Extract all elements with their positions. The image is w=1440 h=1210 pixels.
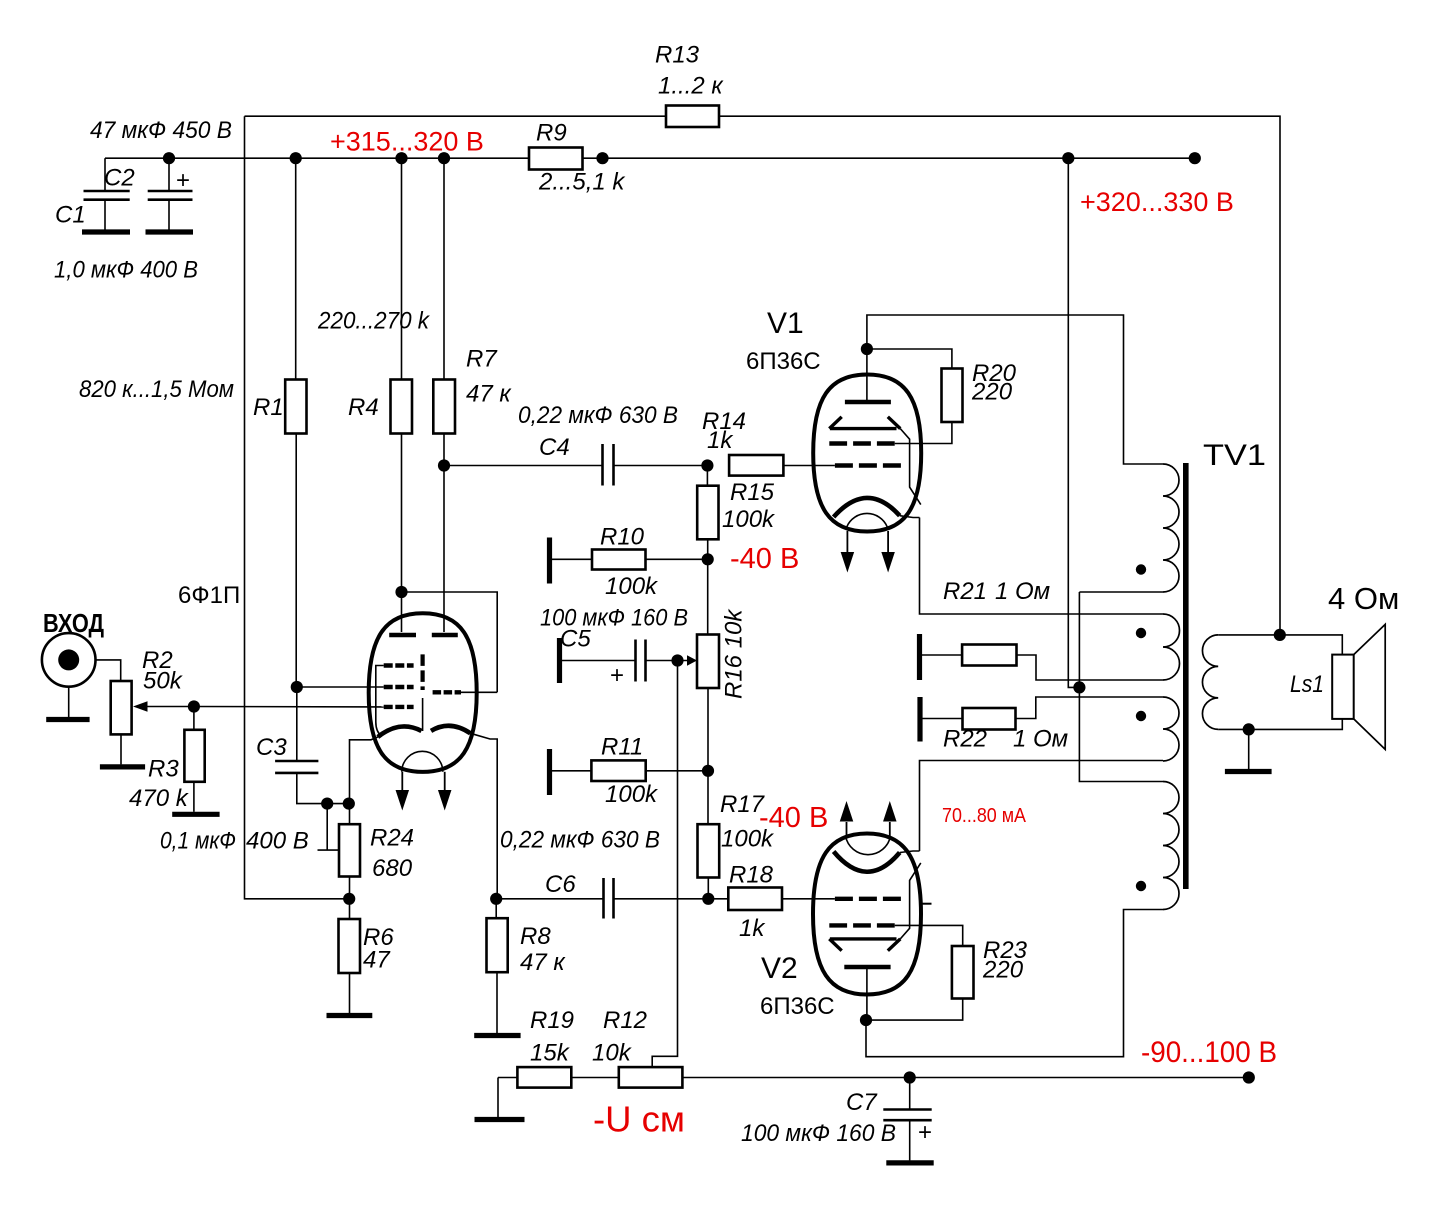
svg-text:-U см: -U см bbox=[593, 1099, 685, 1140]
svg-text:6Ф1П: 6Ф1П bbox=[178, 582, 240, 609]
svg-text:1k: 1k bbox=[707, 427, 734, 454]
svg-text:47 мкФ 450 В: 47 мкФ 450 В bbox=[90, 117, 232, 144]
svg-text:0,22 мкФ 630 В: 0,22 мкФ 630 В bbox=[500, 827, 660, 854]
svg-text:6П36С: 6П36С bbox=[746, 348, 821, 375]
svg-text:1 Ом: 1 Ом bbox=[1013, 726, 1068, 753]
svg-text:10k: 10k bbox=[592, 1040, 633, 1067]
svg-text:-40 В: -40 В bbox=[730, 543, 799, 575]
svg-text:15k: 15k bbox=[530, 1040, 571, 1067]
svg-text:2...5,1 k: 2...5,1 k bbox=[538, 169, 626, 196]
svg-text:50k: 50k bbox=[143, 668, 184, 695]
svg-text:R22: R22 bbox=[943, 726, 987, 753]
svg-text:R13: R13 bbox=[655, 42, 700, 69]
svg-text:470 k: 470 k bbox=[129, 785, 190, 812]
svg-text:47 к: 47 к bbox=[466, 381, 512, 408]
svg-text:R15: R15 bbox=[730, 479, 775, 506]
svg-text:R7: R7 bbox=[466, 346, 498, 373]
svg-text:R24: R24 bbox=[370, 825, 414, 852]
svg-text:1 Ом: 1 Ом bbox=[995, 578, 1050, 605]
svg-text:1k: 1k bbox=[739, 915, 766, 942]
svg-text:6П36С: 6П36С bbox=[760, 993, 835, 1020]
svg-text:R12: R12 bbox=[603, 1007, 647, 1034]
svg-text:C3: C3 bbox=[256, 734, 287, 761]
svg-text:R9: R9 bbox=[536, 120, 567, 147]
svg-text:-90...100 В: -90...100 В bbox=[1141, 1036, 1277, 1069]
svg-text:C6: C6 bbox=[545, 871, 576, 898]
svg-text:R3: R3 bbox=[148, 756, 179, 783]
svg-text:4 Ом: 4 Ом bbox=[1328, 581, 1399, 616]
svg-text:680: 680 bbox=[372, 855, 413, 882]
svg-text:R4: R4 bbox=[348, 394, 379, 421]
svg-text:R21: R21 bbox=[943, 578, 987, 605]
svg-text:0,22 мкФ 630 В: 0,22 мкФ 630 В bbox=[518, 402, 678, 429]
svg-text:+: + bbox=[918, 1119, 932, 1146]
svg-text:TV1: TV1 bbox=[1203, 439, 1266, 472]
svg-text:400 В: 400 В bbox=[246, 828, 309, 855]
svg-text:1,0 мкФ 400 В: 1,0 мкФ 400 В bbox=[54, 257, 198, 284]
svg-text:R11: R11 bbox=[601, 734, 643, 761]
svg-text:820 к...1,5 Мом: 820 к...1,5 Мом bbox=[79, 376, 234, 403]
svg-text:+: + bbox=[610, 662, 624, 689]
svg-text:-40 В: -40 В bbox=[759, 802, 828, 834]
svg-text:+320...330 В: +320...330 В bbox=[1080, 187, 1234, 217]
svg-text:100 мкФ 160 В: 100 мкФ 160 В bbox=[741, 1120, 896, 1147]
svg-text:220: 220 bbox=[971, 379, 1013, 406]
svg-text:C2: C2 bbox=[104, 165, 135, 192]
svg-text:100k: 100k bbox=[722, 506, 776, 533]
svg-text:+: + bbox=[176, 167, 190, 194]
svg-text:V1: V1 bbox=[767, 307, 804, 340]
svg-text:220...270 k: 220...270 k bbox=[317, 308, 431, 335]
svg-text:C7: C7 bbox=[846, 1089, 878, 1116]
svg-text:V2: V2 bbox=[761, 952, 798, 985]
svg-text:47: 47 bbox=[363, 947, 391, 974]
svg-text:100k: 100k bbox=[605, 573, 659, 600]
svg-text:220: 220 bbox=[982, 957, 1024, 984]
svg-text:R10: R10 bbox=[600, 524, 645, 551]
svg-text:1...2 к: 1...2 к bbox=[658, 73, 724, 100]
svg-text:C4: C4 bbox=[539, 434, 570, 461]
svg-text:Ls1: Ls1 bbox=[1290, 671, 1324, 698]
svg-text:70...80 мА: 70...80 мА bbox=[942, 804, 1026, 827]
svg-text:0,1 мкФ: 0,1 мкФ bbox=[160, 828, 236, 855]
svg-text:R19: R19 bbox=[530, 1007, 574, 1034]
svg-text:C5: C5 bbox=[560, 626, 591, 653]
svg-text:R8: R8 bbox=[520, 923, 551, 950]
svg-text:R16 10k: R16 10k bbox=[721, 608, 748, 699]
svg-text:+315...320 В: +315...320 В bbox=[330, 127, 484, 157]
svg-text:47 к: 47 к bbox=[520, 949, 566, 976]
svg-text:C1: C1 bbox=[55, 202, 86, 229]
svg-text:R18: R18 bbox=[729, 862, 774, 889]
svg-text:ВХОД: ВХОД bbox=[43, 608, 104, 638]
svg-text:100k: 100k bbox=[605, 781, 659, 808]
svg-text:R1: R1 bbox=[253, 394, 284, 421]
